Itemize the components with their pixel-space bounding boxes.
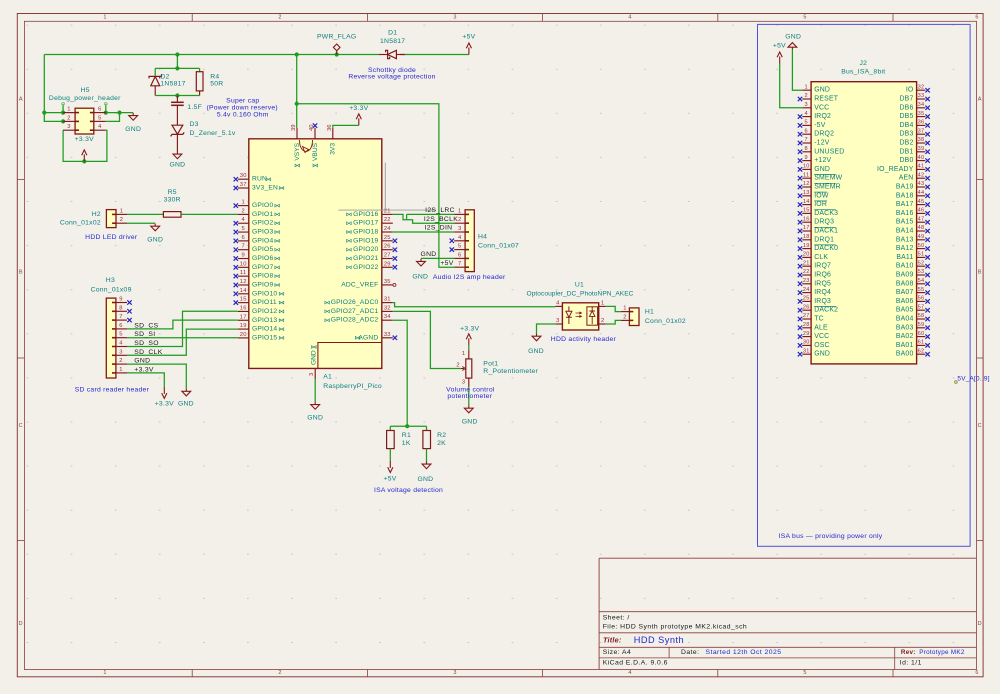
ground A1	[307, 402, 323, 421]
svg-text:50R: 50R	[210, 80, 223, 87]
svg-text:2: 2	[119, 358, 122, 364]
net label SD_CS	[134, 322, 158, 329]
svg-text:44: 44	[918, 190, 925, 196]
svg-text:62: 62	[918, 348, 925, 354]
svg-text:1: 1	[805, 84, 808, 90]
A1 pin 30 RUN	[234, 173, 271, 183]
wire pot bottom	[468, 387, 470, 406]
junction H5 pin6	[104, 111, 108, 115]
J2 pin 36 DB4	[899, 120, 929, 129]
J2 pin 1 GND	[802, 84, 830, 93]
label R2	[437, 432, 446, 439]
svg-text:41: 41	[918, 164, 925, 170]
label Pot1 value	[483, 368, 538, 375]
label D3	[190, 121, 199, 128]
J2 pin 51 BA11	[896, 252, 929, 261]
svg-text:R5: R5	[168, 189, 177, 196]
J2 pin 19 DACK0	[798, 243, 838, 252]
svg-text:Size: A4: Size: A4	[603, 649, 632, 656]
svg-text:1N5817: 1N5817	[380, 38, 405, 45]
wire GPIO16 jog	[393, 214, 454, 223]
A1 pin 25 GPIO19	[347, 235, 398, 245]
J2 pin 9 +12V	[798, 155, 832, 164]
svg-text:GND: GND	[420, 251, 436, 258]
svg-text:GPIO27_ADC1: GPIO27_ADC1	[331, 308, 379, 315]
svg-text:+3.3V: +3.3V	[155, 401, 174, 408]
svg-text:IRQ7: IRQ7	[814, 263, 831, 270]
svg-text:GND: GND	[310, 350, 317, 365]
svg-text:AGND: AGND	[358, 334, 378, 341]
svg-text:RESET: RESET	[814, 96, 839, 103]
svg-text:2: 2	[623, 314, 626, 320]
svg-text:4: 4	[556, 301, 560, 307]
svg-text:DB5: DB5	[899, 113, 913, 120]
svg-text:Sheet: /: Sheet: /	[603, 614, 630, 621]
svg-text:Bus_ISA_8bit: Bus_ISA_8bit	[841, 68, 885, 75]
svg-text:26: 26	[384, 244, 391, 250]
svg-text:HDD Synth: HDD Synth	[634, 635, 684, 645]
Pot1 pin 1 number	[462, 351, 465, 357]
svg-text:5: 5	[119, 332, 122, 338]
H2 pin 2 number	[120, 217, 123, 223]
svg-text:6: 6	[458, 252, 461, 258]
svg-text:4: 4	[628, 670, 631, 676]
svg-text:1N5817: 1N5817	[160, 80, 185, 87]
svg-text:4: 4	[628, 14, 631, 20]
junction rail/D2 branch	[175, 52, 179, 56]
title block file text	[603, 624, 747, 631]
J2 pin 41 IO_READY	[877, 164, 930, 173]
J2 pin 6 DRQ2	[798, 128, 834, 137]
A1 pin 39 VSYS	[291, 125, 301, 167]
net label I2S_DIN	[425, 225, 453, 232]
svg-text:DB3: DB3	[899, 131, 913, 138]
svg-text:49: 49	[918, 234, 925, 240]
power +3.3V (pico 3V3)	[349, 105, 368, 125]
diode D1 1N5817	[379, 50, 405, 58]
Pot1 pin 3 number	[462, 379, 465, 385]
label U1 value	[527, 291, 634, 298]
wire 3V3 to +3.3V	[333, 125, 359, 127]
wire GPIO27 to pot	[393, 311, 461, 368]
wire R1 top	[389, 426, 391, 430]
svg-text:BA19: BA19	[896, 184, 914, 191]
J2 pin 55 BA07	[896, 287, 930, 296]
label J2	[859, 60, 867, 67]
svg-text:53: 53	[918, 269, 925, 275]
wire H2 pin2 to GND	[127, 222, 155, 224]
svg-text:9: 9	[805, 155, 808, 161]
svg-text:29: 29	[384, 261, 391, 267]
wire stub above H5 pin1	[62, 102, 65, 112]
J2 pin 14 IOR	[798, 199, 827, 208]
svg-text:4: 4	[458, 235, 462, 241]
svg-text:VCC: VCC	[814, 104, 829, 111]
title block kicad version	[603, 660, 668, 667]
svg-text:51: 51	[918, 252, 925, 258]
J2 pin 30 OSC	[798, 340, 830, 349]
H3 pin 5 number	[119, 332, 122, 338]
resistor R4	[196, 72, 203, 96]
wire A1 GND	[314, 379, 316, 402]
svg-text:3: 3	[119, 349, 122, 355]
wire R5 to GPIO1	[181, 213, 238, 215]
title block id	[900, 660, 922, 667]
junction D2/R4 top	[175, 66, 179, 70]
label J2 value	[841, 68, 885, 75]
J2 pin 21 IRQ7	[798, 260, 831, 269]
J2 pin 16 DRQ3	[798, 216, 834, 225]
svg-text:6: 6	[241, 235, 244, 241]
junction D2/R4 bottom	[175, 93, 179, 97]
no-connect H4 pin4	[450, 239, 454, 243]
svg-text:DACK2: DACK2	[814, 307, 838, 314]
svg-text:3: 3	[453, 14, 456, 20]
label U1	[575, 281, 584, 288]
ground H3	[178, 389, 194, 408]
J2 pin 18 DRQ1	[798, 234, 834, 243]
A1 pin 20 GPIO15	[238, 332, 284, 342]
ground H5	[125, 113, 141, 133]
net label SD_SO	[134, 340, 159, 347]
svg-text:3: 3	[805, 102, 808, 108]
J2 pin 7 -12V	[798, 137, 830, 146]
svg-text:40: 40	[918, 155, 925, 161]
J2 pin 48 BA14	[896, 225, 930, 234]
note audio I2S amp header	[433, 274, 506, 281]
svg-text:6: 6	[975, 14, 978, 20]
A1 pin 19 GPIO14	[238, 323, 284, 333]
label H5 value	[49, 95, 121, 102]
power +3.3V (H5)	[75, 136, 94, 161]
svg-text:3: 3	[462, 379, 465, 385]
svg-text:33: 33	[384, 332, 391, 338]
A1 pin 11 GPIO8	[234, 270, 280, 280]
diode D2 1N5817 (schottky)	[149, 74, 162, 95]
svg-text:12: 12	[803, 181, 810, 187]
wire J2 VCC	[780, 64, 803, 108]
A1 pin 35 ADC_VREF	[341, 279, 396, 289]
graphic line v	[384, 163, 386, 211]
net label GND (H3)	[134, 358, 150, 365]
svg-text:43: 43	[918, 181, 925, 187]
svg-text:3V3: 3V3	[330, 143, 337, 155]
A1 pin 22 GPIO17	[347, 217, 393, 227]
label R2 value	[437, 440, 446, 447]
svg-text:H2: H2	[92, 211, 101, 218]
net label I2S_BCLK	[424, 216, 458, 223]
J2 pin 57 BA05	[896, 304, 930, 313]
H4 pin 4 number	[458, 235, 462, 241]
svg-text:52: 52	[918, 260, 925, 266]
svg-text:Id: 1/1: Id: 1/1	[900, 660, 922, 667]
svg-text:IRQ6: IRQ6	[814, 272, 831, 279]
A1 pin 36 3V3	[327, 125, 337, 155]
power +5V (J2)	[773, 43, 786, 64]
svg-text:10: 10	[803, 164, 810, 170]
J2 pin 61 BA01	[896, 340, 930, 349]
wire D2/R4 top rail	[155, 67, 199, 69]
svg-text:31: 31	[803, 348, 810, 354]
J2 pin 43 BA19	[896, 181, 930, 190]
J2 pin 25 IRQ3	[798, 296, 831, 305]
svg-text:AEN: AEN	[899, 175, 914, 182]
J2 pin 24 IRQ4	[798, 287, 831, 296]
svg-text:2: 2	[456, 362, 459, 368]
wire D2/R4 bottom rail	[155, 95, 199, 97]
svg-text:2: 2	[241, 208, 244, 214]
title block size/date row	[603, 649, 782, 656]
svg-text:54: 54	[918, 278, 925, 284]
svg-text:R2: R2	[437, 432, 446, 439]
A1 pin 3 GND	[309, 346, 317, 380]
svg-text:34: 34	[918, 102, 925, 108]
J2 pin 44 BA18	[896, 190, 930, 199]
capacitor supercap 1.5F	[171, 102, 184, 125]
svg-text:30: 30	[803, 340, 810, 346]
J2 pin 11 SMEMW	[798, 172, 843, 181]
svg-text:1: 1	[103, 670, 106, 676]
J2 pin 50 BA12	[896, 243, 930, 252]
svg-text:RaspberryPI_Pico: RaspberryPI_Pico	[323, 383, 382, 390]
H5 pin 6 number	[98, 107, 101, 113]
svg-text:7: 7	[458, 261, 461, 267]
power +3.3V down (H3)	[155, 387, 174, 408]
svg-text:-12V: -12V	[814, 140, 830, 147]
wire U1 pin1 to H1	[606, 306, 621, 311]
svg-text:I2S_LRC: I2S_LRC	[425, 207, 455, 214]
svg-text:GPIO9: GPIO9	[252, 281, 273, 288]
J2 pin 38 DB2	[899, 137, 929, 146]
junction H5 pin1	[61, 111, 65, 115]
svg-text:GPIO2: GPIO2	[252, 220, 273, 227]
svg-text:24: 24	[803, 287, 810, 293]
svg-text:Reverse voltage protection: Reverse voltage protection	[348, 74, 435, 81]
note HDD activity header	[551, 336, 617, 343]
label D1	[388, 30, 397, 37]
J2 pin 8 UNUSED	[798, 146, 845, 155]
svg-text:D: D	[19, 621, 23, 627]
svg-text:BA05: BA05	[896, 307, 914, 314]
svg-text:GND: GND	[125, 126, 141, 133]
svg-text:22: 22	[384, 217, 391, 223]
wire +5V to H5 left drop	[44, 55, 63, 122]
zener diode D3	[171, 125, 185, 151]
svg-text:ISA voltage detection: ISA voltage detection	[374, 487, 443, 494]
wire I2S_LRC	[407, 214, 455, 219]
Pot1 pin 2 number	[456, 362, 459, 368]
svg-text:31: 31	[384, 297, 391, 303]
junction H5 left drop	[42, 111, 46, 115]
H1 pin 1 number	[623, 306, 626, 312]
svg-text:ISA bus — providing power only: ISA bus — providing power only	[779, 533, 883, 540]
label D1 value	[380, 38, 405, 45]
svg-text:16: 16	[803, 216, 810, 222]
A1 pin 7 GPIO5	[234, 244, 280, 254]
svg-text:Debug_power_header: Debug_power_header	[49, 95, 121, 102]
J2 pin 35 DB5	[899, 111, 929, 120]
wire R4 top stub	[199, 68, 201, 71]
no-connect H3 pin7	[127, 318, 131, 322]
svg-text:1: 1	[241, 200, 244, 206]
svg-text:4: 4	[805, 111, 808, 117]
svg-text:GPIO5: GPIO5	[252, 246, 273, 253]
connector H4 Conn_01x07 body	[454, 210, 474, 272]
H3 pin 2 number	[119, 358, 122, 364]
label supercap value	[187, 104, 202, 111]
svg-text:GND: GND	[462, 419, 478, 426]
svg-text:1: 1	[458, 208, 461, 214]
net label +3.3V (H3)	[134, 366, 154, 373]
H5 pin 3 number	[67, 124, 70, 130]
svg-text:26: 26	[803, 304, 810, 310]
svg-text:BA14: BA14	[896, 228, 914, 235]
svg-text:16: 16	[240, 305, 247, 311]
ground U1	[528, 334, 544, 355]
svg-text:Conn_01x07: Conn_01x07	[478, 243, 519, 250]
svg-text:RUN: RUN	[252, 176, 267, 183]
svg-text:6: 6	[98, 107, 101, 113]
ground R2	[417, 462, 433, 483]
title block sheet text	[603, 614, 630, 621]
svg-text:1K: 1K	[402, 440, 411, 447]
U1 pin 2 number	[601, 318, 604, 324]
H4 pin 1 number	[458, 208, 461, 214]
svg-text:BA07: BA07	[896, 289, 914, 296]
svg-text:IO: IO	[906, 87, 914, 94]
no-connect H3 pin9	[127, 300, 131, 304]
svg-text:4: 4	[98, 124, 102, 130]
svg-text:BA16: BA16	[896, 210, 914, 217]
svg-text:59: 59	[918, 322, 925, 328]
svg-text:Optocoupler_DC_PhotoNPN_AKEC: Optocoupler_DC_PhotoNPN_AKEC	[527, 291, 634, 298]
ground H4	[412, 259, 428, 281]
svg-text:H1: H1	[645, 309, 654, 316]
svg-text:24: 24	[384, 226, 391, 232]
svg-text:330R: 330R	[164, 197, 181, 204]
svg-text:GPIO13: GPIO13	[252, 317, 277, 324]
note HDD LED driver	[85, 234, 138, 241]
H3 pin 7 number	[119, 314, 122, 320]
A1 pin 10 GPIO7	[234, 261, 280, 271]
svg-text:H5: H5	[81, 87, 90, 94]
J2 pin 28 ALE	[798, 322, 828, 331]
svg-text:GND: GND	[169, 161, 185, 168]
svg-text:14: 14	[240, 288, 247, 294]
A1 pin 6 GPIO4	[234, 235, 280, 245]
svg-text:27: 27	[803, 313, 810, 319]
mcu A1 RaspberryPi_Pico body	[249, 139, 382, 369]
svg-text:5: 5	[803, 670, 806, 676]
svg-text:GPIO16: GPIO16	[353, 211, 378, 218]
svg-text:1: 1	[462, 351, 465, 357]
A1 pin 9 GPIO6	[234, 253, 280, 262]
svg-text:Date:: Date:	[681, 649, 700, 656]
A1 pin 26 GPIO20	[347, 244, 398, 254]
svg-text:38: 38	[918, 137, 925, 143]
svg-text:SMEMW: SMEMW	[814, 175, 842, 182]
svg-text:5V_A[0..9]: 5V_A[0..9]	[957, 375, 989, 382]
svg-text:IRQ2: IRQ2	[814, 113, 831, 120]
svg-text:DRQ3: DRQ3	[814, 219, 834, 226]
label H1 value	[645, 318, 686, 325]
svg-text:IRQ3: IRQ3	[814, 298, 831, 305]
A1 pin 31 GPIO26_ADC0	[325, 297, 393, 307]
title block outline	[599, 558, 976, 669]
svg-text:GPIO10: GPIO10	[252, 290, 277, 297]
svg-text:GPIO14: GPIO14	[252, 326, 277, 333]
svg-text:25: 25	[384, 235, 391, 241]
svg-text:Conn_01x02: Conn_01x02	[60, 220, 101, 227]
svg-text:potentiometer: potentiometer	[447, 393, 492, 400]
svg-text:R1: R1	[402, 432, 411, 439]
ground D3	[169, 152, 185, 169]
A1 pin 16 GPIO12	[238, 305, 284, 315]
svg-text:15: 15	[240, 297, 247, 303]
svg-text:11: 11	[240, 270, 247, 276]
net label SD_SI	[134, 331, 155, 338]
label D2 value	[160, 80, 185, 87]
svg-text:A: A	[978, 97, 982, 103]
svg-text:DRQ1: DRQ1	[814, 236, 834, 243]
svg-text:B: B	[19, 270, 23, 276]
svg-text:GND: GND	[147, 237, 163, 244]
power +3.3V (pot)	[460, 325, 479, 345]
connector H2 Conn_01x02 body	[106, 210, 127, 228]
svg-text:2: 2	[67, 115, 70, 121]
label R1 value	[402, 440, 411, 447]
svg-text:IO_READY: IO_READY	[877, 166, 914, 173]
svg-text:+3.3V: +3.3V	[460, 325, 479, 332]
svg-text:HDD activity header: HDD activity header	[551, 336, 617, 343]
J2 pin 33 DB7	[899, 93, 929, 102]
svg-text:BA04: BA04	[896, 316, 914, 323]
svg-text:SMEMR: SMEMR	[814, 184, 841, 191]
svg-text:58: 58	[918, 313, 925, 319]
svg-text:DACK1: DACK1	[814, 228, 838, 235]
svg-text:5.4v 0.160 Ohm: 5.4v 0.160 Ohm	[217, 111, 269, 118]
A1 pin 5 GPIO3	[234, 226, 280, 236]
svg-text:2: 2	[458, 217, 461, 223]
J2 pin 34 DB6	[899, 102, 929, 111]
no-connect H3 pin8	[127, 309, 131, 313]
svg-text:BA15: BA15	[896, 219, 914, 226]
svg-text:GPIO19: GPIO19	[353, 237, 378, 244]
svg-text:ALE: ALE	[814, 324, 828, 331]
svg-text:D1: D1	[388, 30, 397, 37]
svg-text:57: 57	[918, 304, 925, 310]
wire SD_CS to GPIO13	[127, 320, 238, 329]
svg-text:DB7: DB7	[899, 96, 913, 103]
svg-text:GPIO3: GPIO3	[252, 229, 273, 236]
svg-text:BA01: BA01	[896, 342, 914, 349]
label H3 value	[91, 287, 132, 294]
label H4 value	[478, 243, 519, 250]
svg-text:IOR: IOR	[814, 201, 827, 208]
wire R2 bottom	[426, 449, 428, 462]
svg-text:2K: 2K	[437, 440, 446, 447]
svg-text:37: 37	[240, 182, 247, 188]
svg-text:DB2: DB2	[899, 140, 913, 147]
J2 pin 49 BA13	[896, 234, 930, 243]
svg-text:I2S_DIN: I2S_DIN	[425, 225, 453, 232]
svg-text:2: 2	[601, 318, 604, 324]
wire +5V raw rail	[44, 54, 469, 56]
junction H5 right	[117, 111, 121, 115]
svg-text:SD card reader header: SD card reader header	[75, 386, 150, 393]
wire H5 pin3 to +3.3V loop	[63, 130, 107, 161]
wire divider rail	[390, 425, 426, 427]
